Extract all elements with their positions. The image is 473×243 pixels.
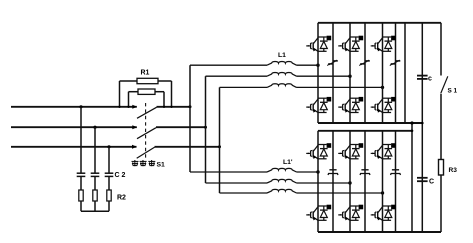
svg-text:S1: S1 [157,161,166,168]
svg-text:S 1: S 1 [448,88,458,95]
svg-text:c: c [428,76,432,83]
svg-text:R1: R1 [141,70,150,77]
svg-text:L1: L1 [278,52,286,59]
svg-text:R2: R2 [117,195,126,202]
svg-text:C 2: C 2 [115,172,126,179]
svg-text:L1': L1' [283,159,293,166]
svg-text:C: C [429,179,434,186]
svg-text:R3: R3 [449,167,458,174]
